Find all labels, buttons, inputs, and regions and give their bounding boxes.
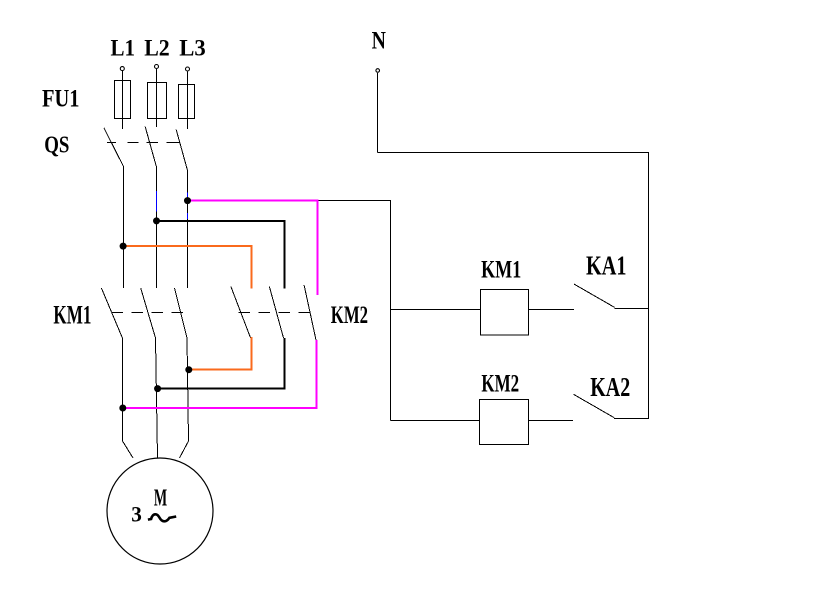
svg-text:QS: QS <box>44 133 69 159</box>
svg-text:KM1: KM1 <box>53 300 91 329</box>
svg-text:KM2: KM2 <box>481 370 519 397</box>
svg-text:M: M <box>154 486 167 512</box>
svg-text:KM2: KM2 <box>331 302 368 329</box>
svg-text:L1: L1 <box>111 35 136 60</box>
svg-text:L2: L2 <box>144 35 170 60</box>
svg-text:KA2: KA2 <box>590 372 630 402</box>
svg-text:FU1: FU1 <box>42 83 80 112</box>
svg-text:KA1: KA1 <box>586 251 627 281</box>
svg-text:N: N <box>372 27 386 54</box>
svg-text:3: 3 <box>131 502 142 527</box>
svg-text:L3: L3 <box>179 35 206 60</box>
svg-text:KM1: KM1 <box>481 257 521 284</box>
